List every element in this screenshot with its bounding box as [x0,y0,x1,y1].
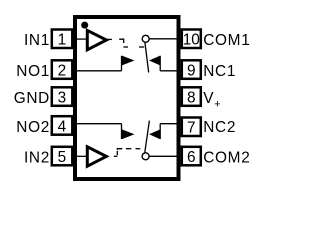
svg-text:V+: V+ [203,90,221,111]
NO2 contact riser [121,124,123,139]
wire COM2 circle to pin6 [149,155,182,157]
pin 9 box [182,60,201,79]
svg-text:IN1: IN1 [24,32,50,49]
wire pin1 to buffer A1 input [72,38,88,40]
svg-text:COM2: COM2 [203,150,250,167]
pin 3 box [52,87,73,106]
wire NC2 to pin7 [160,123,182,125]
NO2 contact arrow [122,129,134,139]
NC1 contact riser [159,56,161,71]
svg-text:5: 5 [58,149,67,166]
wire pin4 to NO2 contact [72,123,122,125]
wire COM1 circle to pin10 [149,38,182,40]
switch armature channel 2 [145,121,150,153]
dashed control line channel 2 [114,155,118,157]
dashed control line channel 1 [119,39,124,43]
COM1 pole circle [142,35,149,42]
wire pin2 to NO1 contact [72,70,122,72]
NO1 contact riser [121,56,123,71]
NO1 contact arrow [122,56,134,66]
wire pin5 to buffer A2 input [72,155,88,157]
svg-text:COM1: COM1 [203,32,250,49]
buffer A2 (channel 2 driver triangle) [87,147,106,166]
pin 8 box [182,87,201,106]
svg-text:2: 2 [58,63,67,80]
IC package body U1 [75,17,179,179]
svg-text:8: 8 [187,90,196,107]
pin 7 box [182,118,201,137]
svg-text:IN2: IN2 [24,150,50,167]
NC2 contact riser [159,124,161,139]
svg-text:GND: GND [14,90,50,107]
svg-text:NC2: NC2 [203,119,236,136]
svg-text:3: 3 [58,90,67,107]
pin 5 box [52,147,73,166]
switch armature channel 1 [145,42,149,72]
wire buffer A1 output stub [106,38,112,40]
pin 10 box [182,30,201,49]
svg-text:4: 4 [58,118,67,135]
pin 4 box [52,116,73,135]
NC2 contact arrow [149,129,160,139]
NC1 contact arrow [149,56,160,66]
svg-text:6: 6 [187,149,196,166]
wire NC1 to pin9 [160,70,182,72]
pin 2 box [52,60,73,79]
svg-text:NO2: NO2 [16,119,50,136]
svg-text:7: 7 [187,120,196,137]
svg-text:10: 10 [183,32,200,49]
svg-text:1: 1 [58,32,67,49]
svg-text:NO1: NO1 [16,63,50,80]
COM2 pole circle [142,153,149,160]
pin 1 box [52,30,73,49]
svg-text:NC1: NC1 [203,63,236,80]
svg-text:9: 9 [187,63,196,80]
pin-1 indicator dot [81,22,88,29]
buffer A1 (channel 1 driver triangle) [87,30,106,49]
pin 6 box [182,147,201,166]
